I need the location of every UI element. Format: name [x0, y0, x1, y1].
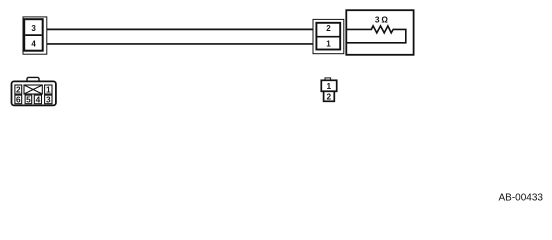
- svg-text:4: 4: [31, 40, 36, 49]
- svg-text:3: 3: [46, 94, 51, 104]
- connector C2 pin divider: [317, 36, 341, 38]
- 6-pin cell pin 2: [15, 85, 22, 94]
- 2-pin upper cavity pin 1: [321, 80, 336, 91]
- connector C2 pin block: [316, 23, 340, 50]
- connector C1 pin block: [24, 19, 43, 51]
- svg-text:Ω: Ω: [381, 15, 388, 24]
- svg-text:2: 2: [16, 84, 21, 94]
- 6-pin cell pin 6: [15, 95, 22, 104]
- svg-text:6: 6: [16, 94, 21, 104]
- svg-text:3: 3: [375, 14, 380, 24]
- svg-text:1: 1: [326, 81, 331, 91]
- 6-pin blanked cell with cross: [24, 85, 42, 94]
- cross diagonal 2: [24, 85, 42, 94]
- 6-pin cell pin 5: [25, 95, 32, 104]
- connector face view, 2-pin, lock tab: [325, 78, 331, 82]
- wire from pin 3 to pin 2: [47, 28, 314, 30]
- connector C1 housing outline (harness side, pins 3/4): [23, 17, 47, 54]
- wire from pin 4 to pin 1: [47, 43, 314, 45]
- svg-text:1: 1: [46, 84, 51, 94]
- svg-text:AB-00433: AB-00433: [499, 193, 544, 204]
- 6-pin cell pin 4: [34, 95, 41, 104]
- connector face view, 6-pin, lock tab: [27, 77, 39, 84]
- svg-text:2: 2: [326, 91, 331, 101]
- 6-pin cell pin 3: [45, 95, 52, 104]
- svg-text:2: 2: [326, 24, 331, 33]
- connector face view, 6-pin body: [12, 81, 56, 105]
- svg-text:4: 4: [36, 94, 41, 104]
- 6-pin cell pin 1: [45, 85, 52, 94]
- component box (blower resistor unit): [346, 10, 413, 55]
- svg-text:5: 5: [26, 94, 31, 104]
- svg-text:3: 3: [31, 24, 36, 33]
- resistor R (3 ohm) with internal wire loop pin2-pin1: [346, 26, 406, 43]
- 2-pin lower cavity pin 2: [324, 91, 335, 101]
- svg-text:1: 1: [326, 39, 331, 48]
- cross diagonal 1: [24, 85, 42, 94]
- connector C2 housing outline (pins 2/1): [313, 19, 344, 53]
- connector C1 pin divider: [25, 34, 42, 36]
